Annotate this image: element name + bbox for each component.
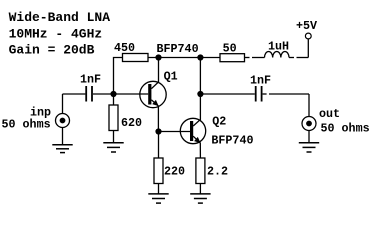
svg-text:50 ohms: 50 ohms bbox=[2, 117, 51, 131]
svg-text:+5V: +5V bbox=[296, 19, 317, 33]
svg-text:1uH: 1uH bbox=[268, 40, 289, 54]
svg-text:Gain = 20dB: Gain = 20dB bbox=[9, 43, 95, 58]
svg-text:Wide-Band LNA: Wide-Band LNA bbox=[9, 10, 111, 25]
svg-text:220: 220 bbox=[164, 165, 185, 179]
svg-text:BFP740: BFP740 bbox=[157, 42, 199, 56]
svg-text:50 ohms: 50 ohms bbox=[321, 122, 370, 136]
svg-text:1nF: 1nF bbox=[250, 74, 271, 88]
svg-text:10MHz - 4GHz: 10MHz - 4GHz bbox=[9, 26, 103, 41]
svg-text:1nF: 1nF bbox=[80, 72, 101, 86]
svg-text:450: 450 bbox=[114, 41, 135, 55]
svg-text:620: 620 bbox=[121, 116, 142, 130]
svg-text:out: out bbox=[319, 107, 340, 121]
svg-text:50: 50 bbox=[223, 41, 237, 55]
svg-text:BFP740: BFP740 bbox=[211, 133, 253, 147]
svg-text:2.2: 2.2 bbox=[207, 165, 228, 179]
svg-text:Q2: Q2 bbox=[212, 115, 226, 129]
svg-text:Q1: Q1 bbox=[164, 70, 178, 84]
